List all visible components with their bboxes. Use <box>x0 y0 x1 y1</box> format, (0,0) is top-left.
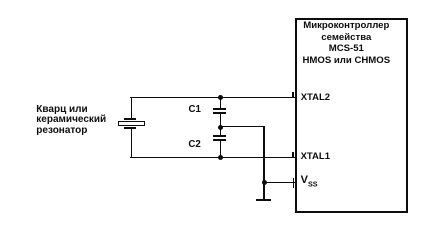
node: junction C1-C2 midpoint <box>218 125 223 130</box>
capacitor C1 <box>0 0 1 1</box>
label: microcontroller title text <box>294 20 399 67</box>
wire: XTAL2 net top horizontal <box>130 97 295 99</box>
crystal ZQ1 (quartz / ceramic resonator) <box>0 0 1 1</box>
wire: crystal top vertical <box>131 97 133 118</box>
wire: middle node to right horizontal <box>220 126 265 128</box>
node: junction Vss / ground <box>262 180 267 185</box>
node: junction XTAL2 / C1 <box>218 95 223 100</box>
wire: XTAL1 net bottom horizontal <box>130 157 295 159</box>
label C2 <box>188 140 200 150</box>
pin tick Vss <box>293 178 294 188</box>
capacitor C2 <box>0 0 1 1</box>
wire: right vertical down to ground <box>263 126 265 200</box>
microcontroller U1 box <box>295 18 409 214</box>
wire: crystal bottom vertical <box>131 128 133 158</box>
node: junction XTAL1 / C2 <box>218 155 223 160</box>
wire: Vss horizontal <box>263 182 295 184</box>
pin tick XTAL2 <box>292 92 294 99</box>
wire: capacitor branch upper segment <box>220 97 222 108</box>
pin tick XTAL1 <box>292 152 294 159</box>
pin label XTAL1 <box>301 152 330 162</box>
ground <box>256 199 271 201</box>
wire: capacitor branch middle segment <box>220 114 222 136</box>
wire: capacitor branch lower segment <box>220 140 222 158</box>
label: crystal annotation "Кварц или керамический резонатор" <box>36 105 106 137</box>
pin label XTAL2 <box>301 93 330 103</box>
label C1 <box>189 105 201 115</box>
pin label Vss <box>301 175 318 190</box>
